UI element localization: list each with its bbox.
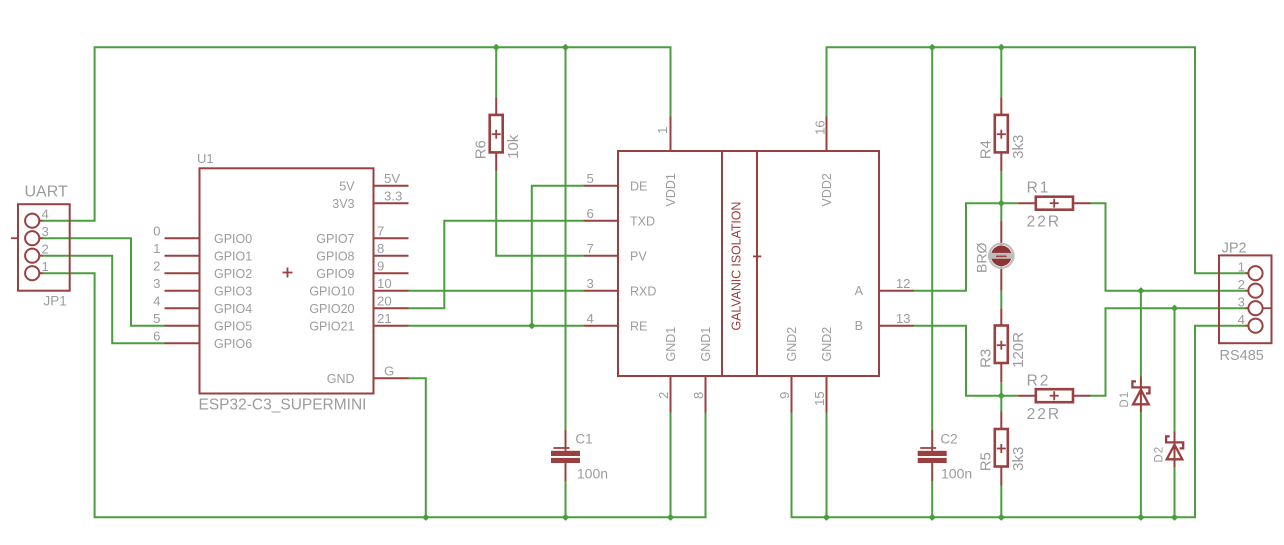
svg-text:GPIO0: GPIO0 [214, 232, 252, 246]
svg-text:GND2: GND2 [785, 327, 799, 362]
svg-text:20: 20 [377, 294, 392, 309]
svg-text:3V3: 3V3 [332, 197, 354, 211]
svg-text:VDD2: VDD2 [820, 173, 834, 206]
svg-text:5V: 5V [339, 179, 355, 193]
svg-text:GPIO7: GPIO7 [316, 232, 354, 246]
svg-text:120R: 120R [1010, 332, 1027, 368]
svg-text:3.3: 3.3 [384, 189, 402, 204]
svg-text:B: B [855, 319, 863, 333]
svg-text:VDD1: VDD1 [664, 173, 678, 206]
svg-text:0: 0 [153, 224, 160, 239]
svg-text:9: 9 [777, 392, 792, 399]
svg-text:U1: U1 [197, 151, 214, 166]
svg-text:JP1: JP1 [44, 294, 67, 309]
svg-text:1: 1 [153, 241, 160, 256]
svg-text:4: 4 [42, 207, 49, 222]
svg-text:GPIO4: GPIO4 [214, 302, 252, 316]
svg-text:GPIO20: GPIO20 [309, 302, 354, 316]
svg-text:3: 3 [153, 276, 160, 291]
svg-text:3k3: 3k3 [1010, 135, 1027, 159]
svg-text:3: 3 [42, 224, 49, 239]
svg-text:GND1: GND1 [699, 327, 713, 362]
svg-text:C2: C2 [940, 432, 957, 447]
svg-text:GPIO21: GPIO21 [309, 319, 354, 333]
svg-text:A: A [855, 284, 864, 298]
svg-text:ESP32-C3_SUPERMINI: ESP32-C3_SUPERMINI [199, 397, 367, 414]
svg-text:GPIO1: GPIO1 [214, 249, 252, 263]
svg-text:2: 2 [656, 392, 671, 399]
svg-text:GALVANIC ISOLATION: GALVANIC ISOLATION [729, 202, 743, 331]
svg-text:GPIO6: GPIO6 [214, 337, 252, 351]
svg-text:5: 5 [153, 311, 160, 326]
svg-text:3: 3 [587, 276, 594, 291]
svg-text:21: 21 [377, 311, 392, 326]
svg-text:GPIO10: GPIO10 [309, 284, 354, 298]
svg-text:4: 4 [1238, 312, 1245, 327]
svg-text:R2: R2 [1027, 372, 1051, 389]
svg-text:16: 16 [813, 120, 828, 135]
svg-text:3k3: 3k3 [1010, 447, 1027, 471]
svg-text:12: 12 [896, 276, 911, 291]
svg-text:6: 6 [587, 206, 594, 221]
svg-text:DE: DE [630, 179, 647, 193]
svg-text:5: 5 [587, 171, 594, 186]
svg-text:2: 2 [42, 242, 49, 257]
svg-text:GND1: GND1 [664, 327, 678, 362]
svg-text:RS485: RS485 [1220, 348, 1264, 364]
svg-text:13: 13 [896, 311, 911, 326]
svg-text:3: 3 [1238, 295, 1245, 310]
svg-text:9: 9 [377, 259, 384, 274]
svg-text:1: 1 [655, 127, 670, 134]
svg-text:7: 7 [377, 224, 384, 239]
svg-text:10k: 10k [505, 134, 522, 159]
svg-text:5V: 5V [384, 171, 400, 186]
svg-text:GPIO2: GPIO2 [214, 267, 252, 281]
svg-text:R6: R6 [473, 140, 490, 159]
svg-text:G: G [384, 364, 394, 379]
svg-text:JP2: JP2 [1222, 241, 1247, 257]
svg-text:R3: R3 [978, 349, 995, 368]
svg-text:PV: PV [630, 249, 647, 263]
svg-text:8: 8 [377, 241, 384, 256]
svg-text:6: 6 [153, 329, 160, 344]
svg-text:15: 15 [812, 391, 827, 406]
svg-text:7: 7 [587, 241, 594, 256]
svg-text:D2: D2 [1153, 446, 1165, 463]
svg-text:GPIO8: GPIO8 [316, 249, 354, 263]
svg-text:1: 1 [1238, 260, 1245, 275]
svg-text:GND2: GND2 [820, 327, 834, 362]
svg-text:4: 4 [153, 294, 160, 309]
svg-text:22R: 22R [1027, 406, 1061, 423]
svg-text:100n: 100n [941, 466, 972, 482]
svg-text:8: 8 [691, 392, 706, 399]
svg-text:2: 2 [153, 259, 160, 274]
svg-text:UART: UART [25, 184, 68, 201]
svg-text:R1: R1 [1027, 179, 1051, 196]
svg-text:1: 1 [42, 259, 49, 274]
svg-text:R5: R5 [978, 452, 995, 471]
svg-text:GPIO3: GPIO3 [214, 284, 252, 298]
svg-text:GPIO5: GPIO5 [214, 319, 252, 333]
svg-text:GND: GND [327, 372, 355, 386]
svg-text:BRØ: BRØ [974, 243, 990, 273]
svg-text:D1: D1 [1119, 391, 1131, 408]
svg-text:GPIO9: GPIO9 [316, 267, 354, 281]
svg-text:4: 4 [587, 311, 594, 326]
svg-text:RXD: RXD [630, 284, 656, 298]
svg-text:C1: C1 [575, 432, 592, 447]
svg-text:R4: R4 [978, 140, 995, 159]
svg-text:RE: RE [630, 319, 647, 333]
svg-text:TXD: TXD [630, 214, 655, 228]
svg-text:10: 10 [377, 276, 392, 291]
svg-text:22R: 22R [1027, 214, 1061, 231]
svg-text:100n: 100n [577, 466, 608, 482]
svg-text:2: 2 [1238, 277, 1245, 292]
